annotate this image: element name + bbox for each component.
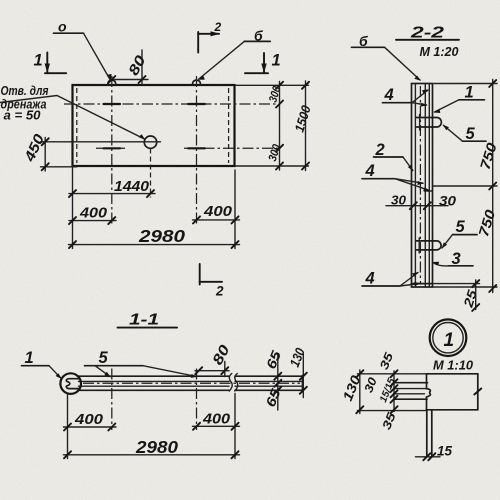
member center axis (dash) bbox=[419, 86, 421, 284]
svg-text:15: 15 bbox=[437, 444, 452, 459]
plate hidden edge right (dashed) bbox=[228, 88, 230, 163]
centerline lower segment right bbox=[184, 147, 280, 149]
drainage hole circle bbox=[144, 136, 156, 148]
svg-text:400: 400 bbox=[79, 205, 108, 222]
svg-text:30: 30 bbox=[439, 193, 456, 209]
svg-text:Отв. для: Отв. для bbox=[1, 84, 50, 98]
svg-text:5: 5 bbox=[99, 349, 109, 367]
detail bubble outer circle bbox=[430, 319, 467, 356]
cross tick loop1 upper bbox=[104, 103, 121, 105]
svg-text:4: 4 bbox=[365, 162, 375, 180]
detail bubble inner circle bbox=[433, 323, 463, 353]
extension top right bbox=[434, 83, 497, 85]
tongue sheet line 2 bbox=[394, 388, 428, 390]
member seam line mid bbox=[425, 190, 433, 192]
dim 130 line bbox=[302, 354, 304, 398]
member inner line 2 bbox=[79, 385, 230, 387]
dim 450 (left side) bbox=[44, 138, 46, 172]
stem line right bbox=[431, 410, 433, 456]
extension bottom right bbox=[433, 286, 497, 288]
bottom extension left bbox=[67, 395, 69, 459]
break mark right bbox=[235, 374, 238, 392]
leader note to hole bbox=[0, 96, 145, 140]
dim 130 left bbox=[359, 370, 361, 414]
block left edge upper bbox=[426, 374, 428, 389]
svg-text:М 1:10: М 1:10 bbox=[433, 359, 473, 373]
axis line loop1 (vertical dash-dot) bbox=[111, 76, 113, 224]
member outer outline bbox=[412, 84, 433, 288]
plate outline bbox=[73, 85, 235, 166]
loop2 axis bbox=[196, 369, 198, 431]
dim 25 (bottom cap) bbox=[475, 280, 477, 310]
svg-text:а = 50: а = 50 bbox=[4, 109, 41, 123]
member inner line c bbox=[428, 84, 430, 288]
extension line plate right bottom bbox=[234, 170, 236, 249]
loop end squiggle bbox=[66, 379, 79, 389]
svg-text:1440: 1440 bbox=[114, 179, 149, 195]
svg-text:2980: 2980 bbox=[138, 226, 185, 246]
svg-text:1: 1 bbox=[25, 349, 34, 367]
bottom extension right bbox=[234, 394, 236, 459]
svg-text:5: 5 bbox=[456, 218, 466, 236]
centerline lower segment left bbox=[96, 147, 125, 149]
hole vertical axis (dashed, down to 1440 dim) bbox=[150, 149, 152, 198]
bottom extension bbox=[358, 410, 427, 412]
layer dim line bbox=[393, 371, 395, 412]
stem line left bbox=[426, 410, 428, 456]
groove profile bbox=[427, 389, 431, 397]
dim 30|30 bbox=[386, 205, 448, 207]
svg-text:2: 2 bbox=[214, 20, 222, 34]
dim 65/65 line bbox=[277, 355, 279, 410]
cross tick loop1 lower bbox=[104, 147, 121, 149]
loop end circle bbox=[60, 373, 81, 394]
dim 400 right bbox=[193, 425, 240, 427]
block right edge bbox=[477, 374, 479, 410]
svg-text:2980: 2980 bbox=[135, 437, 178, 457]
dim 80 (near loop2) bbox=[195, 370, 229, 372]
member centerline axis bbox=[83, 382, 300, 384]
member inner line a bbox=[414, 84, 416, 288]
plate hidden edge left (dashed) bbox=[76, 88, 78, 163]
lower hook (loop section) bbox=[416, 241, 441, 250]
axis line loop2 (vertical dash-dot) bbox=[196, 76, 198, 224]
member top face bbox=[78, 375, 229, 377]
dim 15 stem bbox=[416, 456, 441, 458]
svg-text:М 1:20: М 1:20 bbox=[420, 45, 459, 59]
block right break tick bbox=[474, 389, 481, 395]
tongue sheet line 1 bbox=[394, 382, 428, 384]
member inner line b bbox=[424, 84, 426, 288]
centerline upper (horizontal dash-dot) bbox=[64, 103, 280, 105]
dim 2980 bbox=[69, 244, 240, 246]
dim 400 left bbox=[64, 426, 117, 428]
extension bottom right bbox=[236, 165, 309, 167]
svg-text:1: 1 bbox=[34, 52, 43, 70]
svg-text:о: о bbox=[58, 19, 67, 35]
svg-text:400: 400 bbox=[202, 410, 231, 427]
extension mid right bbox=[433, 185, 497, 187]
extension line plate left bottom bbox=[72, 166, 74, 249]
dim 2980 bbox=[64, 454, 240, 456]
svg-text:2: 2 bbox=[215, 284, 224, 299]
tongue sheet line 3 bbox=[394, 393, 425, 395]
svg-text:1: 1 bbox=[272, 52, 281, 70]
svg-text:4: 4 bbox=[384, 86, 394, 104]
upper hook (loop section) bbox=[417, 118, 442, 128]
svg-text:1: 1 bbox=[465, 84, 474, 102]
dim line 750/750 bbox=[492, 80, 494, 293]
dim 400 left bbox=[69, 220, 116, 222]
svg-text:4: 4 bbox=[365, 270, 375, 288]
svg-text:400: 400 bbox=[74, 411, 104, 428]
block bottom edge bbox=[427, 409, 478, 411]
top edge + extension bbox=[358, 373, 427, 375]
svg-text:30: 30 bbox=[391, 193, 407, 208]
lifting loop left (plan bump) bbox=[108, 80, 116, 85]
cross tick loop2 lower bbox=[188, 147, 205, 149]
hole horizontal centerline / 450 extension bbox=[41, 141, 161, 143]
break mark left bbox=[229, 374, 232, 392]
member inner line 1 bbox=[79, 380, 230, 382]
dim 80 (plan, near loop1) bbox=[141, 50, 143, 84]
dim 400 right bbox=[193, 219, 240, 221]
member end cap right bbox=[302, 376, 304, 392]
dim 1440 bbox=[69, 193, 155, 195]
svg-text:1-1: 1-1 bbox=[129, 312, 159, 329]
dim line 1500 bbox=[305, 81, 307, 171]
member bottom face bbox=[78, 389, 229, 391]
extension top right bbox=[236, 84, 309, 86]
tongue sheet line 4 bbox=[394, 398, 428, 400]
member bottom cap line bbox=[412, 283, 433, 285]
svg-text:1: 1 bbox=[444, 330, 455, 351]
lifting loop right (plan bump) bbox=[193, 80, 201, 85]
svg-text:400: 400 bbox=[203, 203, 233, 220]
cross tick loop2 upper bbox=[188, 103, 205, 105]
dim line 300/300 bbox=[279, 82, 281, 171]
extension bottom cap right bbox=[433, 283, 480, 285]
block left edge lower bbox=[426, 397, 428, 410]
loop1 axis bbox=[111, 369, 113, 431]
